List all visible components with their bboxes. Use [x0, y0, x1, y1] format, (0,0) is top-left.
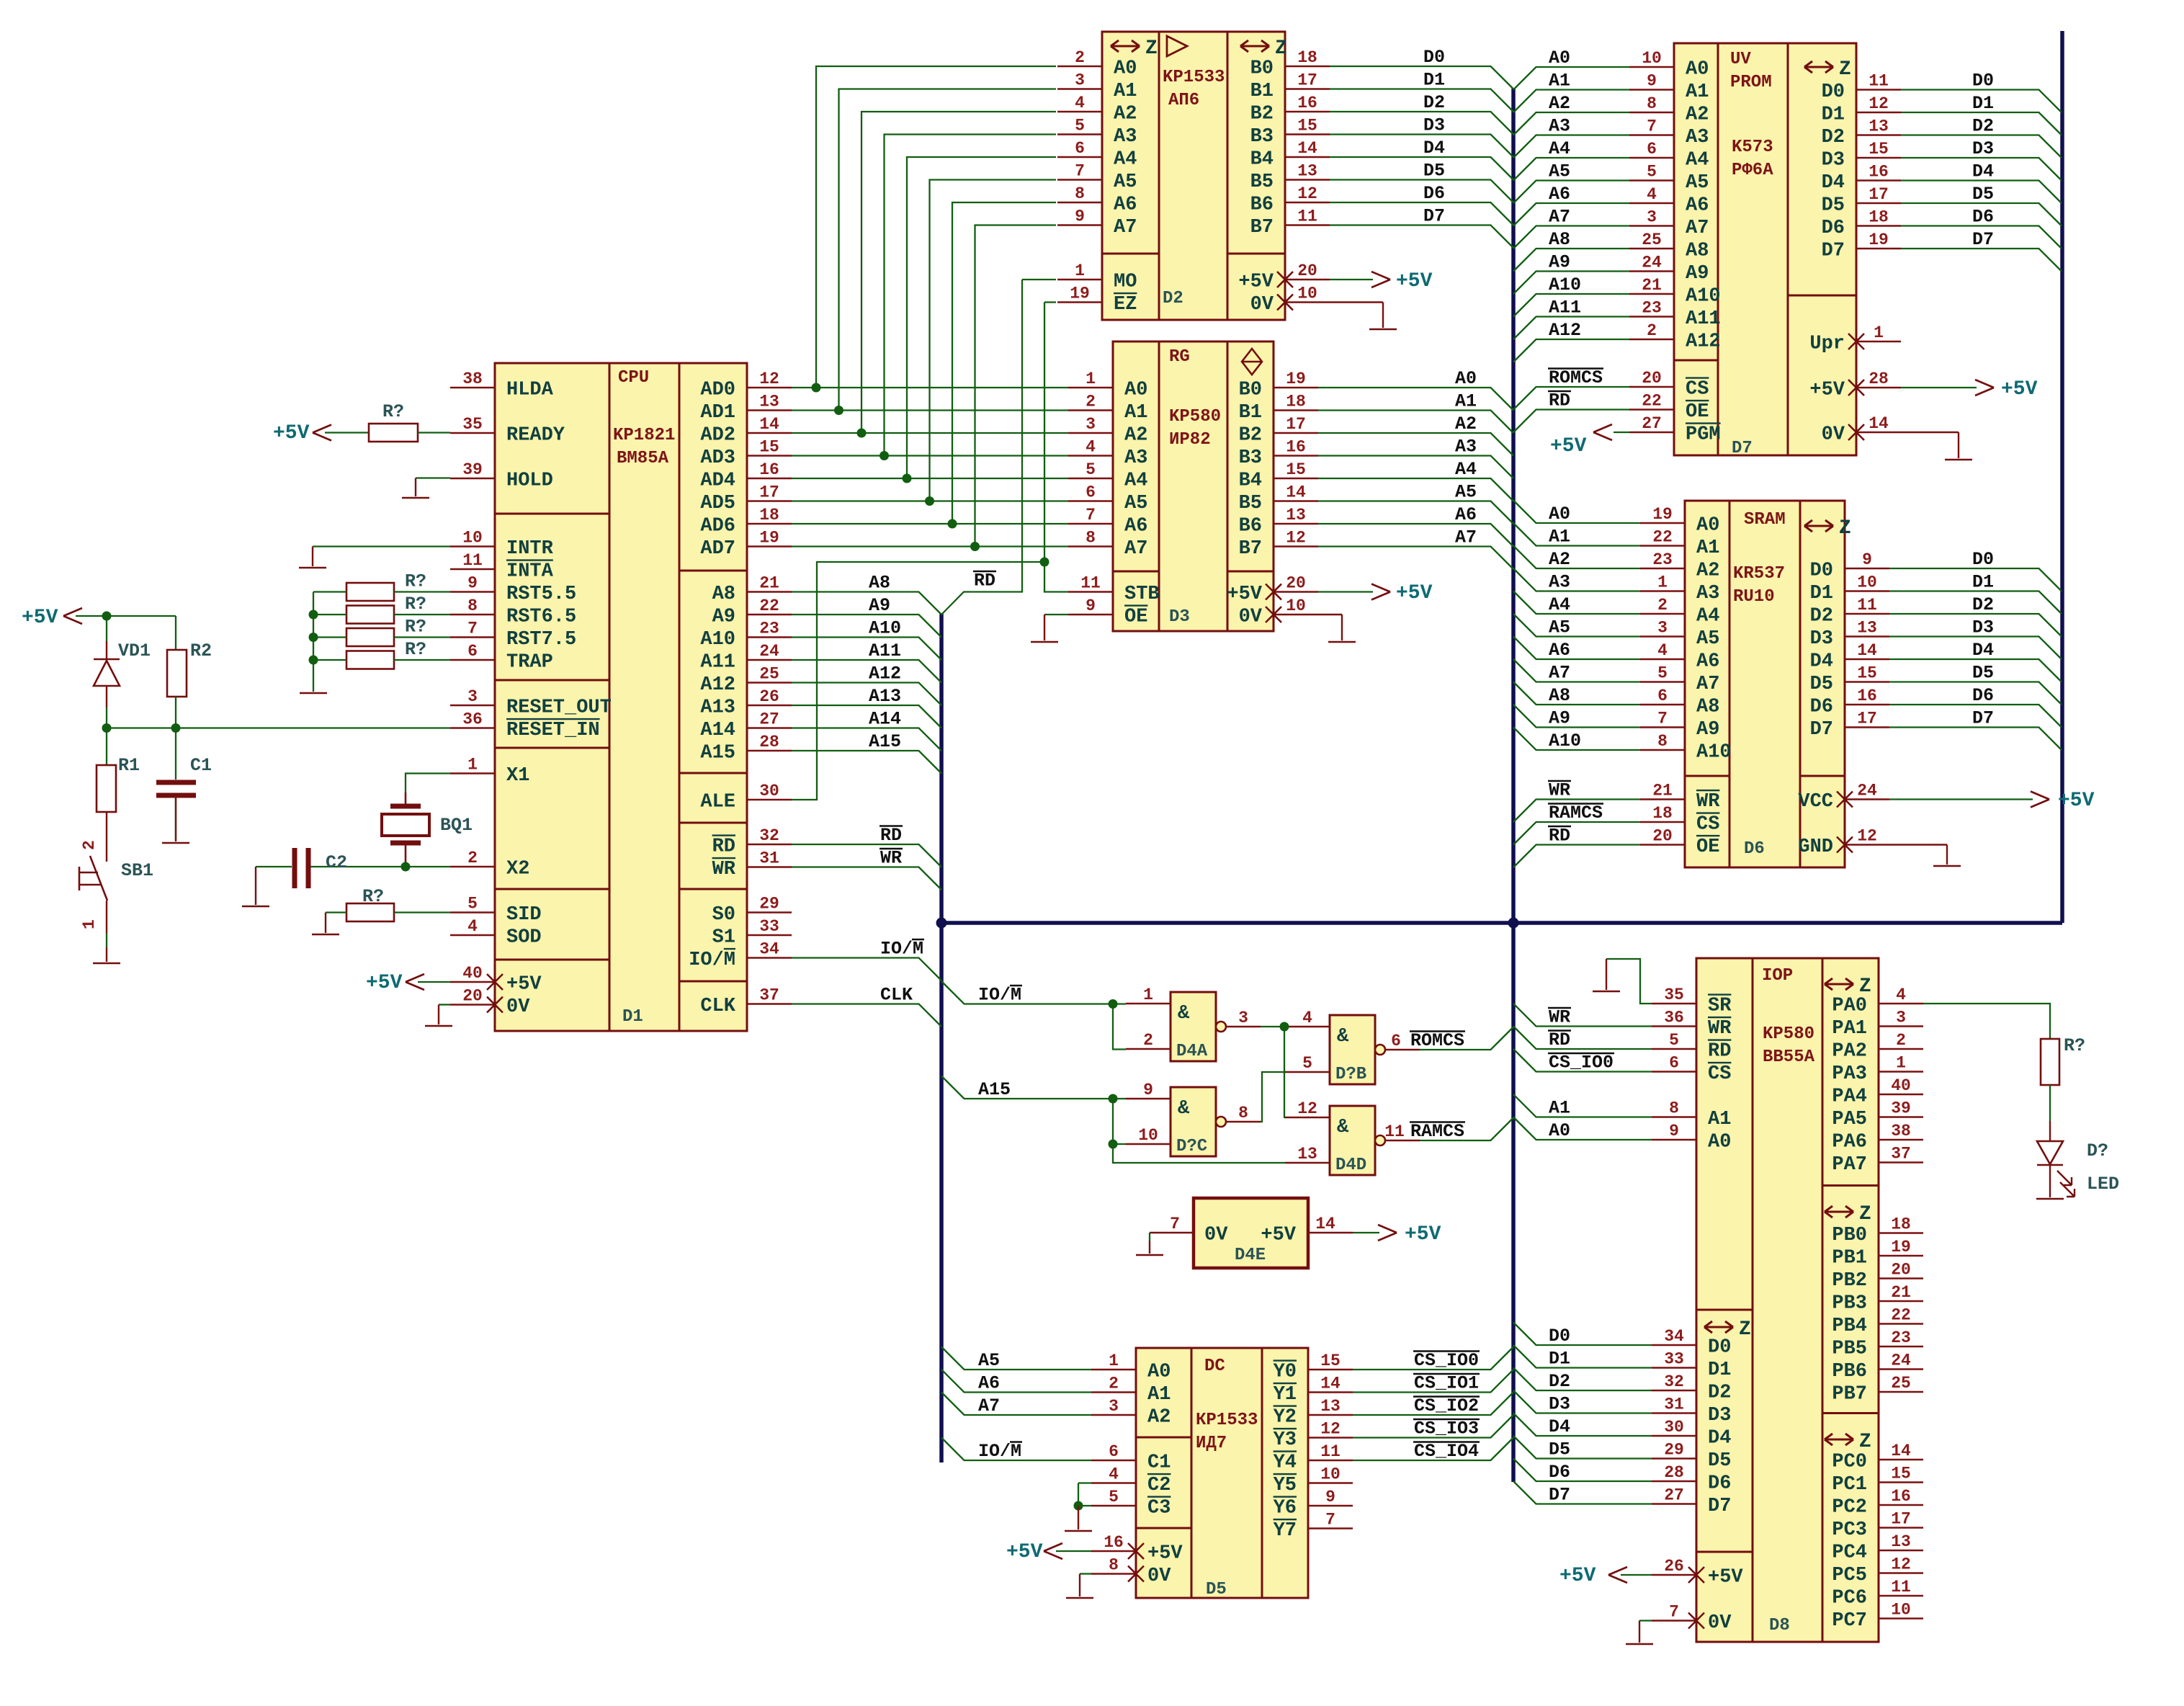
svg-text:PA1: PA1 [1832, 1018, 1867, 1040]
svg-text:A1: A1 [1114, 81, 1137, 102]
svg-text:D5: D5 [1972, 184, 1994, 205]
svg-text:+5V: +5V [1227, 584, 1262, 605]
svg-text:IOP: IOP [1762, 966, 1793, 986]
ground on D8 pin 7 [1639, 1620, 1652, 1621]
svg-text:21: 21 [1891, 1283, 1911, 1302]
ground left of C2 [242, 906, 269, 908]
svg-text:A11: A11 [869, 640, 901, 661]
svg-text:D0: D0 [1822, 81, 1845, 103]
svg-text:STB: STB [1124, 584, 1160, 605]
svg-text:9: 9 [1669, 1122, 1679, 1140]
svg-text:PC6: PC6 [1832, 1588, 1867, 1609]
svg-text:D1: D1 [622, 1007, 643, 1027]
svg-text:4: 4 [1896, 986, 1906, 1004]
svg-text:R?: R? [405, 639, 426, 660]
svg-text:D6: D6 [1423, 183, 1445, 204]
svg-text:A5: A5 [1549, 161, 1570, 182]
svg-text:B7: B7 [1250, 217, 1274, 238]
wires C2,C3 tied to ground [1078, 1482, 1091, 1483]
svg-text:A8: A8 [712, 584, 735, 605]
svg-text:3: 3 [1657, 619, 1668, 638]
svg-text:PA5: PA5 [1832, 1109, 1867, 1130]
svg-text:A2: A2 [1114, 104, 1137, 125]
svg-text:13: 13 [1297, 162, 1317, 181]
svg-text:AD1: AD1 [700, 402, 735, 424]
svg-text:GND: GND [1798, 836, 1833, 858]
svg-text:A10: A10 [1696, 742, 1732, 764]
svg-text:D0: D0 [1972, 71, 1994, 91]
svg-text:A4: A4 [1549, 594, 1570, 615]
svg-text:+5V: +5V [1006, 1541, 1043, 1563]
svg-text:4: 4 [1302, 1009, 1312, 1027]
svg-text:39: 39 [462, 460, 483, 479]
svg-text:32: 32 [1664, 1372, 1684, 1391]
svg-text:10: 10 [1286, 597, 1306, 615]
ground on D6 GND pin [1889, 844, 1947, 845]
wires WR,RD,CS_IO0,A1,A0 from middle bus to D8 [1513, 1004, 1652, 1027]
svg-text:A11: A11 [1686, 308, 1721, 330]
svg-text:34: 34 [1664, 1327, 1684, 1346]
svg-text:B6: B6 [1239, 516, 1262, 537]
wire PA0 to resistor R? [1923, 1004, 2050, 1039]
svg-text:KP580: KP580 [1169, 407, 1221, 426]
svg-text:17: 17 [1869, 185, 1889, 204]
svg-text:ИР82: ИР82 [1169, 430, 1211, 450]
ground under SB1 [93, 963, 120, 965]
svg-text:R?: R? [405, 571, 426, 592]
wire RD from middle bus to D6 OE [1513, 845, 1640, 868]
svg-text:PB1: PB1 [1832, 1248, 1867, 1269]
svg-text:10: 10 [1857, 573, 1877, 592]
svg-text:11: 11 [462, 551, 483, 570]
svg-text:A10: A10 [1549, 274, 1581, 295]
svg-text:D2: D2 [1972, 116, 1994, 137]
svg-text:33: 33 [1664, 1350, 1684, 1369]
svg-text:37: 37 [1891, 1145, 1911, 1164]
svg-text:A3: A3 [1686, 127, 1709, 148]
svg-text:18: 18 [759, 506, 779, 524]
svg-text:5: 5 [1075, 117, 1085, 135]
svg-text:A5: A5 [1124, 493, 1147, 514]
svg-text:13: 13 [1286, 506, 1306, 524]
ground under LED [2036, 1198, 2064, 1200]
svg-text:A15: A15 [869, 731, 901, 752]
svg-text:A15: A15 [700, 743, 735, 764]
ground under RST resistors [300, 692, 327, 695]
capacitor C2 [310, 866, 450, 867]
svg-text:25: 25 [1642, 231, 1662, 249]
svg-text:RD: RD [1549, 390, 1570, 411]
svg-text:9: 9 [1143, 1081, 1153, 1099]
svg-text:16: 16 [1297, 94, 1317, 112]
NAND gate D?B [1330, 1015, 1375, 1084]
svg-text:A1: A1 [1549, 1098, 1570, 1119]
svg-text:RD: RD [880, 825, 902, 846]
svg-text:A2: A2 [1455, 414, 1477, 434]
svg-text:A0: A0 [1696, 515, 1719, 537]
svg-text:B3: B3 [1239, 447, 1262, 469]
svg-text:D4: D4 [1423, 138, 1445, 158]
svg-text:WR: WR [1708, 1018, 1732, 1040]
svg-text:11: 11 [1297, 207, 1317, 226]
svg-text:D2: D2 [1708, 1383, 1731, 1404]
svg-text:2: 2 [1647, 321, 1657, 340]
svg-text:D7: D7 [1423, 206, 1445, 227]
svg-text:13: 13 [1297, 1145, 1317, 1164]
svg-text:5: 5 [1647, 163, 1657, 182]
svg-text:A3: A3 [1455, 437, 1477, 457]
ground on HOLD [416, 477, 450, 478]
decoder D5 KR1533 ID7 body [1136, 1348, 1308, 1598]
svg-text:INTA: INTA [506, 561, 554, 583]
wires D0..D7 from middle bus to D8 [1513, 1323, 1652, 1346]
svg-text:B5: B5 [1250, 171, 1274, 193]
svg-text:A9: A9 [869, 595, 890, 616]
svg-text:PC4: PC4 [1832, 1542, 1867, 1564]
svg-text:19: 19 [1869, 231, 1889, 249]
IO port D8 KP580 BB55A body [1696, 958, 1879, 1642]
svg-text:4: 4 [1075, 94, 1085, 112]
power +5V on D2 pin 20 [1330, 279, 1373, 280]
svg-text:31: 31 [759, 849, 779, 868]
svg-text:OE: OE [1696, 836, 1719, 858]
svg-text:Y6: Y6 [1274, 1498, 1297, 1519]
svg-text:14: 14 [1297, 139, 1317, 158]
svg-text:C1: C1 [1147, 1452, 1171, 1474]
svg-text:D1: D1 [1708, 1359, 1731, 1381]
svg-text:A0: A0 [1455, 368, 1477, 389]
svg-text:SR: SR [1708, 996, 1732, 1017]
svg-text:RAMCS: RAMCS [1410, 1121, 1464, 1142]
svg-text:16: 16 [1857, 687, 1877, 705]
svg-text:1: 1 [467, 756, 478, 774]
NAND gate D?C [1171, 1087, 1216, 1156]
svg-text:A6: A6 [1124, 516, 1147, 537]
svg-text:14: 14 [1857, 641, 1877, 660]
svg-text:PC3: PC3 [1832, 1519, 1867, 1541]
svg-text:PB5: PB5 [1832, 1339, 1867, 1360]
svg-text:OE: OE [1686, 401, 1709, 423]
svg-text:6: 6 [1109, 1442, 1119, 1461]
svg-text:D3: D3 [1972, 138, 1994, 159]
svg-text:B0: B0 [1239, 380, 1262, 401]
svg-text:CS_IO4: CS_IO4 [1414, 1441, 1479, 1462]
svg-text:B5: B5 [1239, 493, 1262, 514]
svg-text:A7: A7 [1124, 538, 1147, 560]
svg-text:19: 19 [1652, 505, 1673, 524]
svg-text:RAMCS: RAMCS [1549, 803, 1603, 823]
svg-text:Z: Z [1859, 1203, 1871, 1225]
svg-text:LED: LED [2087, 1174, 2119, 1194]
svg-text:D0: D0 [1549, 1326, 1570, 1347]
svg-text:26: 26 [759, 687, 779, 706]
svg-text:Y5: Y5 [1274, 1475, 1297, 1496]
wire RESET_IN net [107, 727, 450, 728]
svg-text:A8: A8 [869, 573, 890, 594]
SRAM D6 left pins [1640, 522, 1685, 524]
svg-text:19: 19 [1891, 1238, 1911, 1256]
svg-text:0V: 0V [1204, 1225, 1228, 1246]
svg-text:VCC: VCC [1798, 791, 1833, 813]
svg-text:R?: R? [405, 617, 426, 638]
svg-text:AD5: AD5 [700, 493, 735, 514]
svg-text:+5V: +5V [1396, 270, 1433, 292]
svg-text:A3: A3 [1549, 572, 1570, 593]
svg-text:27: 27 [1642, 414, 1662, 433]
svg-text:R?: R? [382, 401, 404, 422]
svg-text:&: & [1178, 1098, 1190, 1120]
svg-text:A8: A8 [1686, 241, 1709, 262]
svg-text:Y7: Y7 [1274, 1520, 1297, 1542]
LED light arrows [2057, 1171, 2072, 1185]
svg-text:A1: A1 [1124, 402, 1147, 424]
svg-text:20: 20 [462, 987, 483, 1006]
svg-text:7: 7 [1657, 710, 1668, 728]
svg-text:16: 16 [759, 460, 779, 479]
svg-text:K573: K573 [1732, 138, 1773, 157]
svg-text:D1: D1 [1549, 1349, 1570, 1370]
IO port D8 right pins [1879, 1003, 1923, 1004]
svg-text:EZ: EZ [1114, 294, 1137, 316]
svg-text:D3: D3 [1708, 1405, 1731, 1426]
NAND gate D4A [1171, 992, 1216, 1061]
svg-text:4: 4 [1086, 438, 1096, 457]
svg-text:BM85A: BM85A [617, 449, 669, 468]
svg-text:A3: A3 [1124, 447, 1147, 469]
power +5V on D6 VCC [1889, 798, 2033, 800]
svg-text:20: 20 [1642, 369, 1662, 388]
svg-text:Z: Z [1275, 37, 1287, 60]
power +5V on D7 pin 28 [1901, 387, 1977, 388]
svg-text:33: 33 [759, 917, 779, 936]
svg-text:10: 10 [1138, 1126, 1158, 1145]
svg-text:CPU: CPU [618, 368, 649, 388]
svg-text:13: 13 [1869, 117, 1889, 136]
svg-text:7: 7 [1325, 1511, 1335, 1529]
svg-text:19: 19 [759, 529, 779, 548]
svg-text:12: 12 [1297, 184, 1317, 203]
svg-text:D6: D6 [1822, 218, 1845, 239]
junction +5V/VD1 [102, 612, 112, 621]
svg-text:D5: D5 [1972, 663, 1994, 684]
svg-text:21: 21 [1642, 276, 1662, 295]
svg-text:A2: A2 [1696, 561, 1719, 582]
resistor R? for LED [2041, 1039, 2059, 1085]
svg-text:6: 6 [1669, 1054, 1679, 1073]
svg-text:23: 23 [759, 620, 779, 638]
svg-text:B6: B6 [1250, 195, 1274, 216]
svg-text:+5V: +5V [1559, 1565, 1596, 1587]
svg-text:A9: A9 [1696, 719, 1719, 741]
svg-text:A6: A6 [1114, 195, 1137, 216]
svg-text:R?: R? [2064, 1035, 2085, 1056]
ground on CPU pin 20 [439, 1004, 450, 1005]
svg-text:A8: A8 [1696, 697, 1719, 718]
svg-text:10: 10 [1891, 1601, 1911, 1620]
svg-text:1: 1 [1657, 573, 1668, 592]
svg-text:20: 20 [1297, 262, 1317, 280]
svg-text:+5V: +5V [1708, 1567, 1743, 1589]
svg-text:SID: SID [506, 904, 542, 926]
svg-text:D5: D5 [1822, 195, 1845, 217]
power +5V on D4E pin 14 [1353, 1232, 1379, 1233]
svg-text:A0: A0 [1708, 1132, 1731, 1153]
svg-text:1: 1 [1086, 370, 1096, 388]
svg-text:13: 13 [759, 393, 779, 411]
svg-text:39: 39 [1891, 1099, 1911, 1118]
latch D3 right pins [1274, 387, 1318, 388]
svg-text:Upr: Upr [1809, 334, 1845, 355]
svg-text:24: 24 [1891, 1352, 1911, 1370]
svg-text:B7: B7 [1239, 538, 1262, 560]
wire ALE from CPU [792, 562, 1044, 800]
svg-text:24: 24 [1642, 254, 1662, 272]
svg-text:38: 38 [1891, 1122, 1911, 1140]
svg-text:A12: A12 [869, 664, 901, 684]
svg-text:HOLD: HOLD [506, 470, 553, 492]
svg-text:D6: D6 [1810, 697, 1833, 718]
svg-text:PC1: PC1 [1832, 1474, 1867, 1496]
svg-text:A1: A1 [1696, 537, 1719, 559]
svg-text:A6: A6 [1549, 184, 1570, 205]
svg-text:16: 16 [1891, 1487, 1911, 1506]
svg-text:9: 9 [467, 574, 478, 593]
svg-text:A7: A7 [1686, 218, 1709, 239]
svg-text:A13: A13 [700, 697, 735, 719]
junction RESET/R1 [102, 723, 112, 733]
svg-text:37: 37 [759, 986, 779, 1005]
svg-text:D4: D4 [1822, 172, 1845, 194]
svg-text:3: 3 [1238, 1009, 1248, 1027]
svg-text:A0: A0 [1549, 504, 1570, 524]
svg-text:RST5.5: RST5.5 [506, 584, 576, 605]
svg-text:22: 22 [1642, 392, 1662, 411]
wire EZ to ALE net [1044, 301, 1056, 303]
svg-text:28: 28 [1869, 370, 1889, 388]
svg-text:AD2: AD2 [700, 425, 735, 447]
ground under C1 [175, 795, 176, 841]
svg-text:15: 15 [1320, 1352, 1341, 1370]
svg-text:+5V: +5V [1550, 435, 1587, 457]
wire D?C output to D?B pin5 [1261, 1072, 1285, 1122]
svg-text:12: 12 [1891, 1555, 1911, 1574]
svg-text:Y0: Y0 [1274, 1362, 1297, 1383]
svg-text:C2: C2 [326, 852, 347, 873]
svg-text:DC: DC [1204, 1357, 1225, 1376]
svg-text:PROM: PROM [1730, 73, 1772, 92]
svg-text:A2: A2 [1549, 93, 1570, 114]
svg-text:22: 22 [1652, 528, 1673, 547]
svg-text:22: 22 [1891, 1306, 1911, 1325]
svg-text:A7: A7 [1114, 217, 1137, 238]
svg-text:16: 16 [1869, 163, 1889, 182]
svg-text:7: 7 [1086, 506, 1096, 524]
svg-text:D3: D3 [1972, 617, 1994, 638]
svg-text:9: 9 [1862, 550, 1872, 569]
svg-text:14: 14 [1286, 483, 1306, 502]
svg-text:IO/M: IO/M [978, 1441, 1021, 1462]
svg-text:13: 13 [1857, 619, 1877, 638]
svg-text:&: & [1337, 1117, 1349, 1138]
svg-text:D4: D4 [1810, 651, 1833, 673]
svg-text:21: 21 [1652, 782, 1673, 800]
bus junction at left bus / horizontal bus [936, 918, 947, 929]
svg-text:+5V: +5V [2058, 790, 2095, 812]
svg-text:D1: D1 [1822, 104, 1845, 126]
svg-text:1: 1 [1874, 323, 1884, 342]
svg-text:&: & [1337, 1026, 1349, 1048]
svg-text:A8: A8 [1549, 229, 1570, 250]
svg-text:KR537: KR537 [1733, 564, 1785, 584]
svg-text:WR: WR [712, 859, 736, 880]
svg-text:A10: A10 [1686, 286, 1721, 308]
svg-text:11: 11 [1869, 72, 1889, 91]
svg-text:40: 40 [1891, 1076, 1911, 1095]
svg-text:A0: A0 [1549, 48, 1570, 68]
svg-text:6: 6 [1391, 1032, 1401, 1050]
ground on D3 OE pin [1044, 614, 1068, 615]
svg-text:PA7: PA7 [1832, 1154, 1867, 1176]
svg-text:PB4: PB4 [1832, 1316, 1867, 1337]
svg-text:A0: A0 [1549, 1120, 1570, 1141]
svg-text:9: 9 [1647, 72, 1657, 91]
svg-text:10: 10 [1297, 285, 1317, 303]
svg-text:D4: D4 [1972, 640, 1994, 661]
svg-text:25: 25 [1891, 1374, 1911, 1393]
svg-text:B4: B4 [1239, 470, 1262, 492]
switch SB1 [106, 812, 107, 862]
svg-text:PC2: PC2 [1832, 1497, 1867, 1519]
svg-text:B1: B1 [1239, 402, 1262, 424]
svg-text:PB6: PB6 [1832, 1361, 1867, 1383]
svg-text:2: 2 [1896, 1031, 1906, 1050]
svg-text:17: 17 [1891, 1510, 1911, 1529]
svg-text:D5: D5 [1810, 674, 1833, 695]
svg-text:A2: A2 [1686, 104, 1709, 126]
svg-text:10: 10 [1320, 1465, 1341, 1484]
svg-text:0V: 0V [1708, 1612, 1732, 1634]
svg-text:35: 35 [462, 415, 483, 434]
svg-text:PC5: PC5 [1832, 1565, 1867, 1586]
svg-text:PC7: PC7 [1832, 1610, 1867, 1632]
svg-text:PA2: PA2 [1832, 1041, 1867, 1063]
svg-text:A3: A3 [1696, 583, 1719, 604]
svg-text:23: 23 [1642, 299, 1662, 318]
svg-text:A1: A1 [1549, 71, 1570, 91]
svg-text:23: 23 [1652, 550, 1673, 569]
svg-text:KP1821: KP1821 [613, 426, 675, 445]
svg-text:PB0: PB0 [1832, 1225, 1867, 1246]
bus: horizontal bus [941, 921, 2062, 925]
svg-text:&: & [1178, 1003, 1190, 1024]
svg-text:D6: D6 [1972, 207, 1994, 228]
svg-text:+5V: +5V [22, 607, 58, 629]
svg-text:D5: D5 [1206, 1580, 1227, 1599]
svg-text:D3: D3 [1423, 115, 1445, 136]
svg-text:A1: A1 [1708, 1109, 1731, 1130]
svg-text:RU10: RU10 [1733, 587, 1775, 607]
wires D3 B0..B7 to middle bus with labels A0..A7 [1318, 388, 1513, 411]
svg-text:2: 2 [467, 849, 478, 867]
svg-text:A6: A6 [1549, 640, 1570, 661]
svg-text:12: 12 [1286, 529, 1306, 548]
ground under SID resistor [312, 934, 339, 936]
svg-text:29: 29 [1664, 1441, 1684, 1460]
svg-text:14: 14 [1869, 414, 1889, 433]
decoder D5 right pins [1308, 1369, 1353, 1370]
CPU D1 KP1821 BM85A body [495, 363, 747, 1031]
svg-text:TRAP: TRAP [506, 652, 553, 674]
